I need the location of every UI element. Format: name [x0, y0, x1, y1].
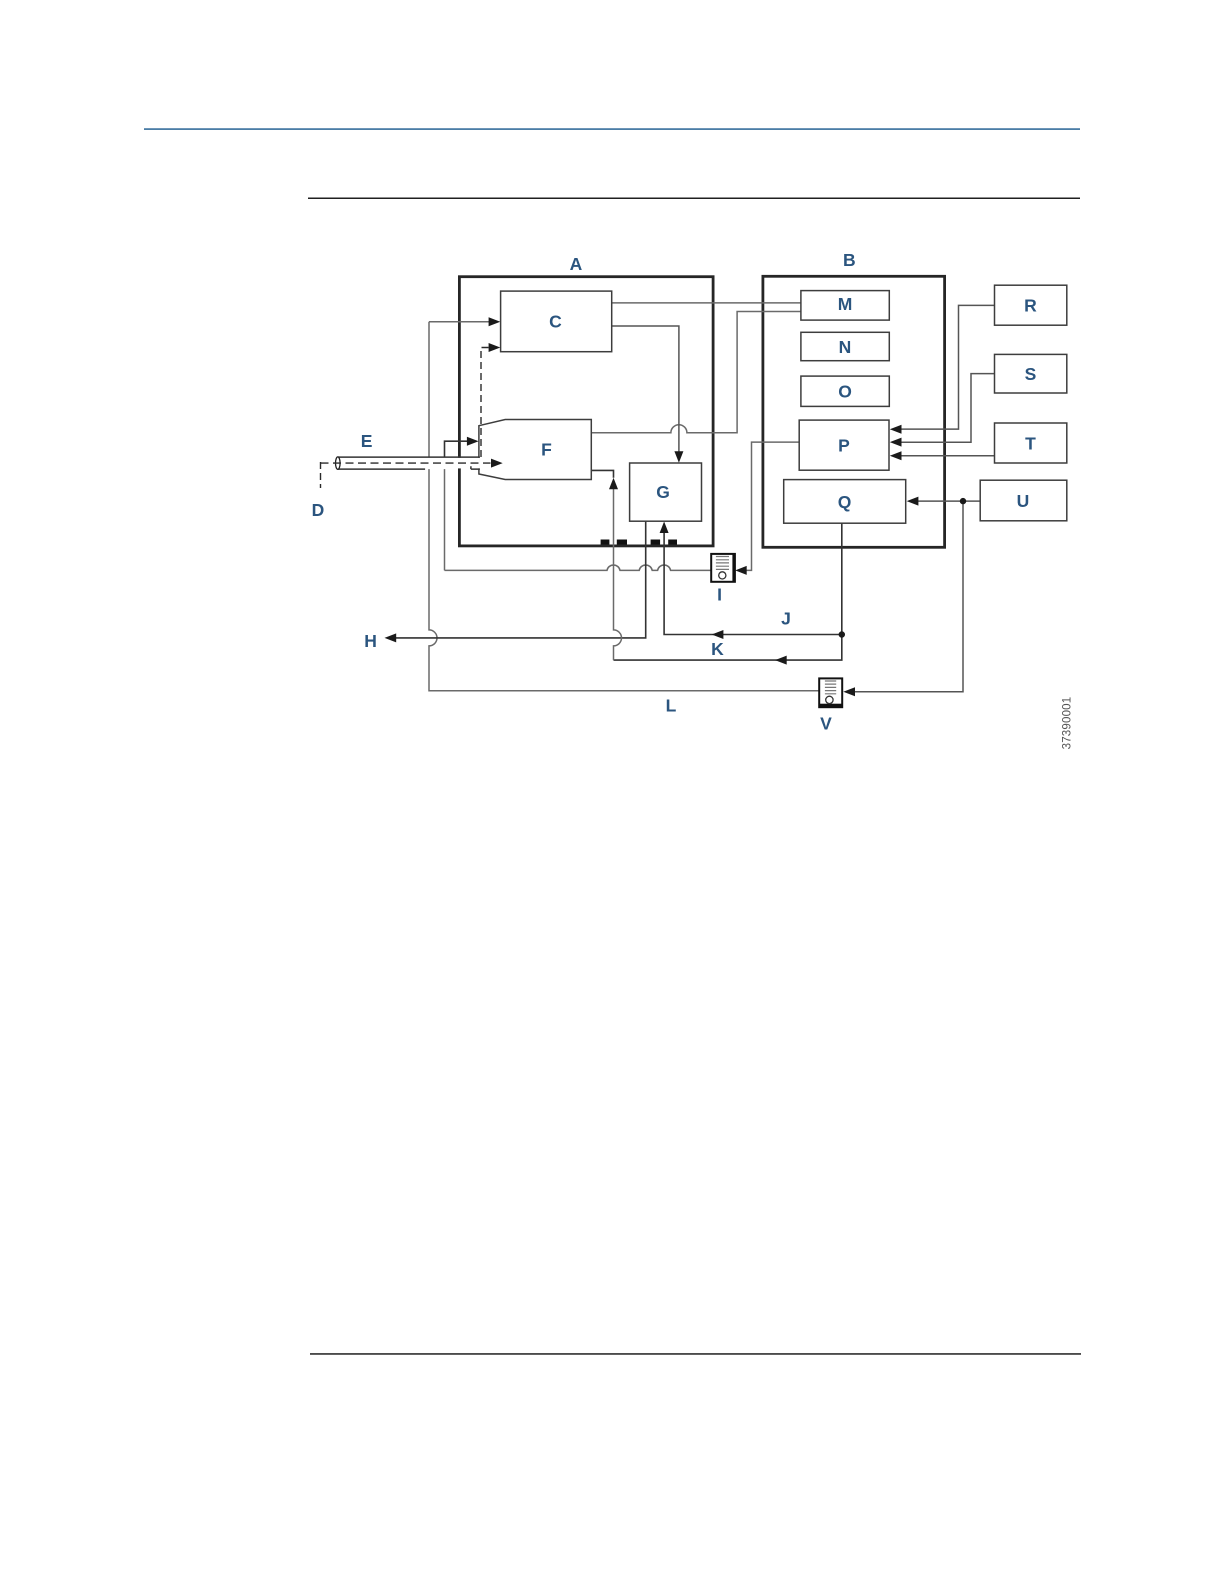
wire I line (from pipe area to device I, hops over 3 verticals): [445, 469, 712, 570]
wire U to Q: [907, 497, 981, 506]
wire P to device I: [735, 442, 799, 575]
top blue rule: [144, 128, 1080, 130]
wire C inlet (from vertical bus): [429, 317, 500, 326]
junction dot U: [960, 498, 966, 504]
svg-text:R: R: [1024, 296, 1037, 316]
bottom black rule: [310, 1353, 1081, 1355]
svg-text:A: A: [570, 254, 583, 274]
svg-text:O: O: [838, 382, 852, 402]
svg-text:D: D: [312, 500, 325, 520]
svg-text:G: G: [656, 482, 670, 502]
svg-text:L: L: [666, 695, 677, 715]
svg-text:K: K: [711, 639, 724, 659]
wire U junction to V: [843, 501, 963, 696]
svg-text:M: M: [838, 294, 853, 314]
top black rule: [308, 198, 1080, 200]
box S: [995, 354, 1067, 393]
svg-text:E: E: [361, 431, 373, 451]
box C: [501, 291, 612, 352]
svg-text:Q: Q: [838, 492, 852, 512]
svg-text:V: V: [820, 713, 832, 733]
box M: [801, 291, 889, 321]
wire C to M: [612, 302, 801, 304]
svg-text:I: I: [717, 585, 722, 605]
svg-text:H: H: [364, 631, 377, 651]
svg-text:U: U: [1017, 491, 1030, 511]
svg-text:C: C: [549, 311, 562, 331]
svg-text:P: P: [838, 436, 850, 456]
box F with funnel: [479, 420, 591, 480]
box P: [799, 420, 889, 470]
wire vertical bus to L (hops over H): [429, 322, 819, 691]
pipe E body: [336, 457, 480, 469]
wire C to G (down arrow): [612, 326, 684, 463]
svg-text:N: N: [839, 337, 852, 357]
boundary dashes at A bottom: [601, 540, 677, 545]
box G: [630, 463, 702, 521]
dashed centerline D with arrow into F: [321, 459, 503, 488]
wire T to P: [890, 451, 995, 460]
wire S to P: [890, 374, 995, 447]
box Q: [784, 480, 906, 524]
box T: [995, 423, 1067, 463]
svg-text:J: J: [781, 608, 791, 628]
svg-text:F: F: [541, 439, 552, 459]
box O: [801, 376, 889, 406]
dashed wire to C inlet 2: [481, 343, 500, 457]
svg-text:37390001: 37390001: [1062, 697, 1074, 750]
wire K (dot to F with up arrow, hops over H): [591, 470, 842, 664]
wire J (Q to G with up arrow): [660, 522, 842, 640]
junction dot J/K: [839, 631, 845, 637]
svg-text:T: T: [1025, 433, 1036, 453]
device V: [819, 678, 842, 707]
wire F to M: [591, 312, 801, 433]
enclosure box A: [459, 277, 713, 546]
box R: [995, 285, 1067, 325]
box U: [980, 480, 1067, 521]
box N: [801, 332, 889, 360]
enclosure box B: [763, 276, 945, 547]
svg-text:S: S: [1025, 364, 1037, 384]
wire F inlet (solid arrow from pipe top): [445, 437, 479, 457]
wire R to P: [890, 305, 995, 433]
device I: [711, 554, 735, 582]
svg-text:B: B: [843, 250, 856, 270]
wire H (from G bottom, arrow out left): [385, 521, 646, 642]
